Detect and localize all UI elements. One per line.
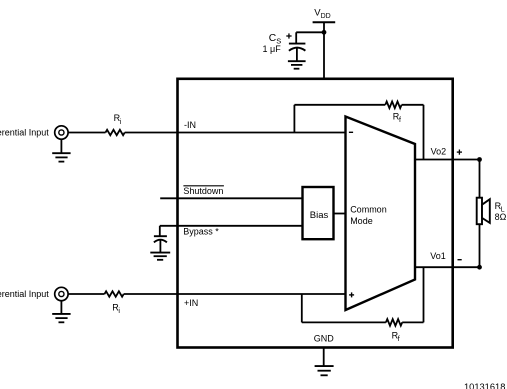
svg-text:-IN: -IN	[184, 120, 196, 130]
power VDD bar	[313, 21, 336, 23]
svg-text:DD: DD	[321, 13, 331, 20]
capacitor bypass lead top	[159, 226, 161, 236]
label minus speaker	[458, 259, 462, 261]
svg-text:8Ω: 8Ω	[495, 212, 507, 222]
speaker RL driver	[477, 198, 482, 225]
node junction dot VDD	[322, 30, 327, 35]
label Shutdown with overline	[183, 186, 224, 196]
capacitor bypass lead bottom	[159, 240, 161, 253]
wire bottom feedback horizontal left	[302, 321, 386, 323]
label Rf (top)	[393, 112, 401, 125]
op-amp common mode trapezoid	[346, 117, 416, 311]
ground below bypass capacitor	[150, 253, 170, 260]
wire top feedback horizontal left	[294, 104, 385, 106]
block Bias	[303, 187, 334, 239]
label plus input	[349, 292, 354, 297]
IC outline box	[178, 79, 453, 348]
wire Ri to -IN to amplifier	[125, 132, 346, 134]
capacitor CS lead top	[295, 32, 297, 43]
svg-text:Vo2: Vo2	[431, 147, 447, 157]
connector top input jack	[55, 126, 68, 139]
svg-text:Differential Input: Differential Input	[0, 127, 49, 137]
capacitor bypass plate curved	[154, 240, 167, 243]
wire bottom feedback horizontal right	[402, 321, 423, 323]
wire feedback tap vertical (top)	[293, 105, 295, 133]
capacitor CS plate curved	[289, 48, 306, 51]
wire Ri to +IN to amplifier	[124, 293, 346, 295]
capacitor CS lead bottom	[296, 48, 298, 61]
ground below top connector	[52, 139, 70, 162]
wire shutdown stub	[160, 197, 302, 199]
svg-text:f: f	[399, 117, 401, 124]
wire Vo2 output	[415, 159, 480, 161]
node junction dot Vo1	[477, 265, 482, 270]
label Ri (top)	[114, 113, 122, 126]
wire Vo1 output	[415, 266, 480, 268]
capacitor bypass plate top	[154, 235, 167, 237]
svg-text:Bias: Bias	[310, 210, 329, 221]
wire speaker vertical	[479, 160, 481, 268]
wire top feedback vertical right down to Vo2	[423, 105, 425, 160]
label plus speaker	[457, 150, 462, 155]
ground below bottom connector	[52, 300, 70, 322]
resistor Rf (top)	[385, 102, 401, 109]
label CS	[269, 33, 281, 46]
label Common Mode	[350, 204, 387, 226]
svg-text:+IN: +IN	[184, 298, 198, 308]
svg-text:GND: GND	[314, 334, 335, 344]
capacitor CS plate positive	[289, 43, 306, 45]
wire top feedback horizontal right	[402, 104, 424, 106]
connector bottom input jack	[55, 287, 68, 300]
svg-text:Mode: Mode	[350, 216, 373, 226]
ground GND below box	[315, 348, 334, 376]
resistor Ri (top)	[106, 130, 125, 135]
wire feedback tap vertical (bottom)	[301, 294, 303, 322]
label Rf (bottom)	[392, 330, 400, 343]
svg-text:Common: Common	[350, 204, 387, 214]
svg-text:Vo1: Vo1	[430, 251, 446, 261]
svg-text:1 μF: 1 μF	[263, 44, 282, 54]
capacitor CS polarity plus	[286, 33, 291, 38]
wire bias to amplifier	[334, 213, 347, 215]
ground below CS	[288, 61, 306, 68]
wire VDD vertical to box	[323, 22, 325, 80]
power VDD label	[314, 8, 331, 21]
wire bottom feedback vertical right up to Vo1	[423, 267, 425, 322]
resistor Rf (bottom)	[386, 319, 402, 326]
svg-text:10131618: 10131618	[464, 382, 505, 389]
wire bottom connector to Ri	[68, 293, 105, 295]
node junction dot Vo2	[477, 157, 482, 162]
label Ri (bottom)	[112, 303, 120, 316]
svg-text:Bypass *: Bypass *	[183, 226, 219, 236]
resistor Ri (bottom)	[105, 291, 124, 296]
wire top connector to Ri	[68, 132, 106, 134]
speaker RL horn	[482, 199, 490, 223]
svg-text:Shutdown: Shutdown	[183, 186, 223, 196]
wire VDD node to capacitor CS	[296, 31, 324, 33]
wire bypass stub	[160, 225, 303, 227]
label RL	[495, 201, 505, 214]
svg-text:Differential Input: Differential Input	[0, 289, 49, 299]
label minus input	[349, 131, 353, 133]
svg-text:f: f	[398, 336, 400, 343]
